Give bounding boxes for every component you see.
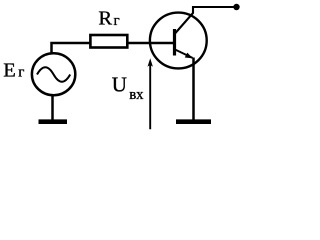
output terminal dot <box>233 4 239 10</box>
svg-text:U: U <box>112 72 127 96</box>
emitter arrowhead <box>185 53 193 59</box>
sine wave inside source <box>37 67 70 82</box>
collector lead: diagonal, stub up, wire to output node <box>175 7 236 34</box>
transistor base bar <box>173 29 176 56</box>
svg-text:R: R <box>98 7 112 29</box>
svg-text:вх: вх <box>129 87 144 103</box>
wire: source top corner to resistor <box>52 43 91 54</box>
svg-text:г: г <box>114 13 120 29</box>
resistor R_g body <box>90 35 127 48</box>
emitter lead: diagonal with arrow <box>175 50 193 58</box>
AC source E_g circle <box>32 53 75 95</box>
wire: source bottom stub <box>51 95 54 122</box>
transistor Q1 circle <box>150 13 207 69</box>
ground bar under source <box>39 119 68 124</box>
emitter wire down <box>192 58 195 122</box>
svg-text:г: г <box>18 65 24 81</box>
input arrow (U_vx direction) <box>149 63 151 129</box>
ground bar under emitter <box>176 119 211 124</box>
svg-text:E: E <box>3 59 16 81</box>
wire: resistor to transistor base <box>128 42 174 45</box>
